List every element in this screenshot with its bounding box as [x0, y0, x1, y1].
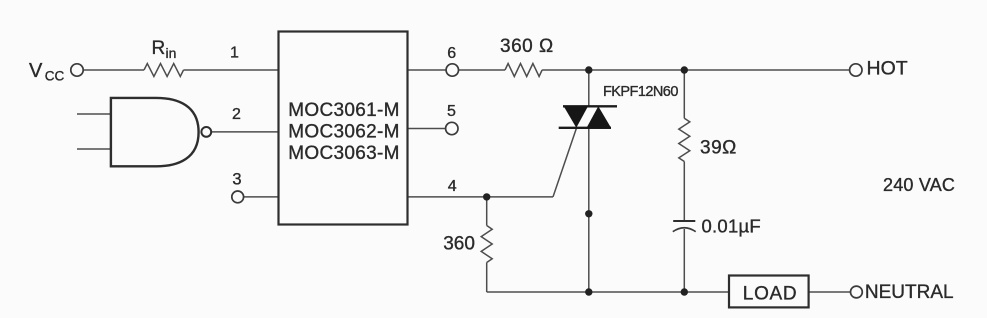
svg-text:R: R [152, 38, 166, 59]
svg-text:1: 1 [230, 45, 239, 62]
svg-text:V: V [29, 60, 43, 82]
svg-text:MOC3062-M: MOC3062-M [288, 122, 399, 143]
svg-text:MOC3063-M: MOC3063-M [288, 143, 399, 164]
svg-text:LOAD: LOAD [743, 283, 798, 304]
svg-text:MOC3061-M: MOC3061-M [288, 100, 399, 121]
svg-text:39Ω: 39Ω [700, 138, 737, 159]
svg-text:CC: CC [45, 68, 65, 83]
svg-text:2: 2 [232, 106, 241, 123]
svg-text:in: in [166, 45, 177, 61]
svg-text:240 VAC: 240 VAC [883, 175, 955, 195]
svg-text:6: 6 [447, 45, 456, 62]
svg-text:5: 5 [447, 103, 456, 120]
svg-text:0.01µF: 0.01µF [702, 215, 761, 236]
svg-text:360: 360 [443, 234, 475, 255]
svg-text:4: 4 [448, 178, 457, 195]
svg-text:360 Ω: 360 Ω [500, 36, 554, 57]
svg-text:HOT: HOT [867, 58, 908, 80]
svg-text:FKPF12N60: FKPF12N60 [603, 84, 678, 100]
svg-text:3: 3 [232, 170, 241, 188]
svg-text:NEUTRAL: NEUTRAL [865, 282, 954, 303]
